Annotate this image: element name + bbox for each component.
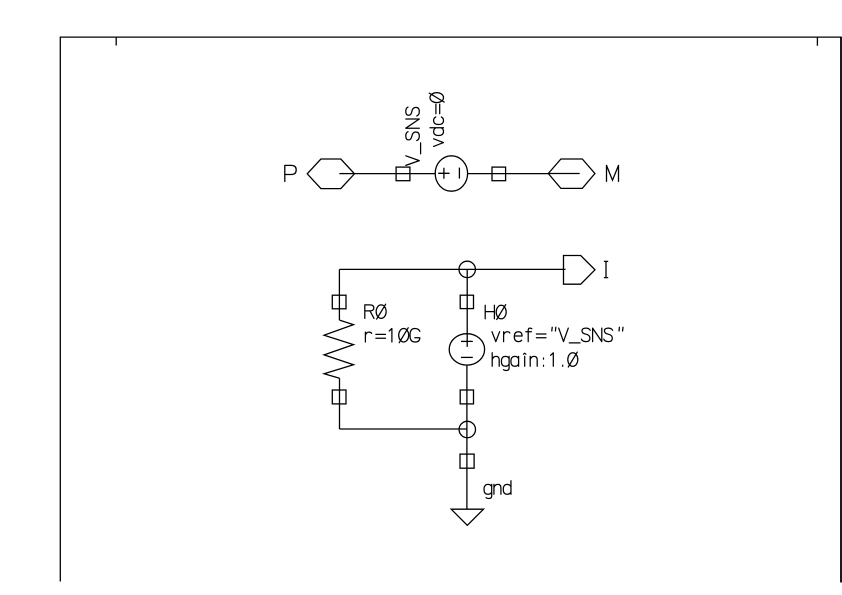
label R0 name <box>365 304 386 319</box>
frame tick right <box>816 37 818 46</box>
bottom wire <box>339 428 467 430</box>
junction node circle top <box>459 261 475 277</box>
pin square V1 minus <box>492 167 506 181</box>
H0 plus bar <box>461 340 473 342</box>
label vdc=0 (rotated) <box>429 93 444 147</box>
port M inner stub <box>548 173 579 175</box>
port I label <box>604 261 608 277</box>
pin square gnd <box>460 454 474 468</box>
voltage source V1 body <box>435 156 467 191</box>
port M label <box>607 165 619 182</box>
frame top border <box>60 36 842 38</box>
wire R0 to bottom node <box>339 378 341 429</box>
pin square H0 top <box>460 295 473 308</box>
label gnd <box>484 481 511 499</box>
H0 minus bar <box>461 356 473 358</box>
V1 plus sign <box>438 168 449 179</box>
wire left branch upper <box>338 269 340 320</box>
junction node circle bottom <box>459 421 475 437</box>
label H0 vref <box>492 327 623 343</box>
pin square R0 bottom <box>332 390 346 404</box>
label R0 value <box>365 328 419 343</box>
frame right border <box>840 37 842 582</box>
wire mid branch upper <box>466 269 468 347</box>
frame left border <box>59 37 61 581</box>
frame tick left <box>115 37 117 45</box>
resistor R0 zigzag <box>324 320 353 378</box>
pin square V1 plus <box>396 167 410 181</box>
port P hexagon <box>307 159 354 189</box>
label H0 hgain <box>492 352 578 370</box>
port M hexagon <box>548 159 595 188</box>
port P inner stub <box>339 173 354 175</box>
port I pentagon <box>564 256 596 285</box>
label V_SNS (rotated) <box>406 107 421 165</box>
wire P to V1 <box>355 173 436 175</box>
gnd triangle <box>451 509 483 525</box>
pin square R0 top <box>332 295 346 309</box>
pin square H0 bottom <box>460 390 473 404</box>
label H0 name <box>485 305 506 320</box>
wire top node to port I <box>339 268 565 270</box>
wire V1 to M <box>468 173 549 175</box>
ccvs H0 body <box>449 334 484 365</box>
wire mid branch lower <box>466 365 468 509</box>
port P label <box>285 165 296 182</box>
V1 minus sign <box>458 168 460 179</box>
